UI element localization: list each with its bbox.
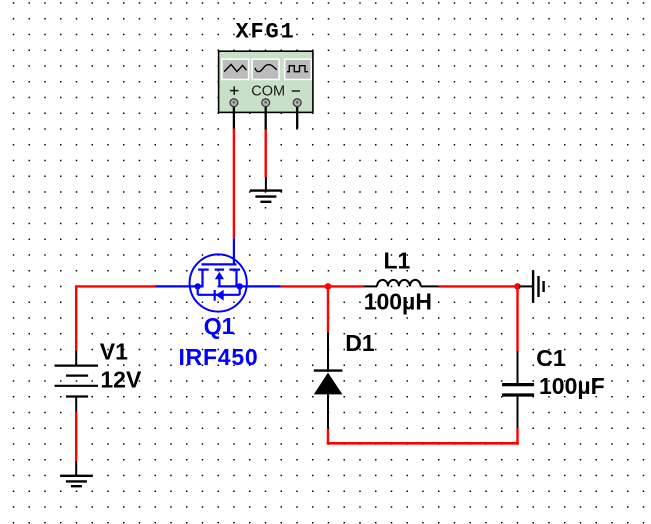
svg-text:XFG1: XFG1 — [236, 20, 296, 45]
svg-text:V1: V1 — [100, 338, 128, 364]
Q1 body vertical — [218, 279, 220, 287]
Q1 body-diode right riser — [239, 286, 241, 294]
Q1 channel segment body — [215, 269, 225, 271]
wire V1 top: corner to battery — [75, 286, 77, 350]
svg-text:100µF: 100µF — [539, 373, 605, 399]
Q1 channel segment drain — [198, 269, 209, 271]
Q1 junction dot source — [237, 283, 243, 289]
wire Q1 source to node A — [281, 285, 364, 287]
wire XFG1 plus to Q1 gate — [233, 129, 235, 239]
node A junction dot — [325, 283, 332, 290]
Q1 drain pin — [156, 285, 203, 287]
Q1 gate pin — [233, 238, 235, 264]
Q1 body-diode left riser — [197, 286, 199, 294]
XFG1 plus label — [230, 86, 239, 95]
XFG1 triangle-wave button — [221, 58, 249, 80]
Q1 gate bar — [202, 263, 237, 265]
Q1 channel segment source — [229, 269, 240, 271]
ground below COM pin — [250, 177, 282, 202]
svg-text:100µH: 100µH — [364, 289, 432, 315]
svg-text:COM: COM — [251, 83, 285, 99]
bottom rail wire — [328, 442, 518, 443]
XFG1 pin stub plus — [233, 104, 235, 129]
Q1 body-diode triangle — [216, 290, 224, 301]
wire node A to D1 — [327, 286, 329, 332]
Q1 body-diode line — [198, 294, 240, 296]
MOSFET Q1 — [156, 238, 281, 311]
XFG1 square-wave button — [284, 58, 312, 80]
XFG1 terminal minus — [293, 99, 301, 107]
ground below V1 — [60, 461, 92, 486]
wire L1 to node B — [439, 285, 518, 287]
Q1 drain vertical — [201, 270, 203, 288]
svg-text:C1: C1 — [536, 345, 566, 371]
ground right of node B — [519, 270, 544, 302]
diode D1 — [314, 332, 343, 429]
XFG1 terminal plus — [230, 99, 238, 107]
node B junction dot — [514, 283, 521, 290]
svg-text:Q1: Q1 — [204, 313, 235, 339]
XFG1 pin stub minus — [296, 104, 298, 129]
wire left horizontal to Q1 drain — [75, 285, 155, 287]
battery V1 — [55, 350, 99, 411]
svg-text:12V: 12V — [100, 367, 142, 393]
wire D1 to bottom rail — [327, 429, 329, 443]
wire XFG1 COM to ground — [265, 130, 267, 177]
capacitor C1 — [502, 351, 534, 428]
inductor L1 — [364, 280, 439, 287]
svg-text:D1: D1 — [345, 330, 375, 356]
Q1 source vertical — [235, 270, 237, 288]
Q1 junction dot drain — [195, 283, 201, 289]
Q1 body arrow — [215, 272, 224, 279]
function generator XFG1 body — [219, 51, 313, 112]
wire battery to ground — [75, 412, 77, 461]
Q1 source pin — [219, 285, 280, 287]
wire C1 to bottom rail — [516, 428, 518, 443]
XFG1 terminal COM — [262, 99, 270, 107]
svg-text:L1: L1 — [384, 247, 411, 273]
Q1 body circle — [190, 254, 247, 311]
XFG1 sine-wave button — [251, 58, 279, 80]
XFG1 minus label — [292, 90, 300, 92]
wire node B to C1 — [516, 286, 518, 351]
Q1 body-diode cathode bar — [214, 290, 216, 301]
XFG1 pin stub COM — [265, 104, 267, 130]
svg-text:IRF450: IRF450 — [179, 344, 259, 370]
